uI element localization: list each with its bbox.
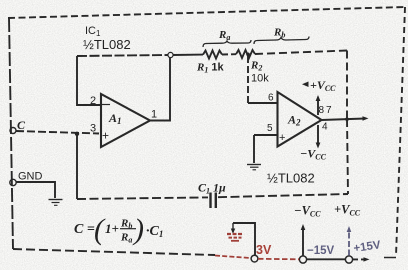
svg-text:R1 1k: R1 1k: [196, 62, 225, 75]
svg-text:5: 5: [267, 123, 273, 134]
svg-text:10k: 10k: [251, 73, 269, 85]
svg-text:1: 1: [151, 109, 157, 121]
svg-text:3: 3: [90, 123, 96, 135]
svg-text:3V: 3V: [256, 243, 272, 257]
svg-text:): ): [132, 213, 144, 246]
svg-text:½TL082: ½TL082: [267, 171, 315, 186]
svg-text:1+: 1+: [105, 221, 119, 236]
svg-text:4: 4: [322, 122, 328, 133]
svg-text:+: +: [102, 129, 109, 143]
svg-text:6: 6: [268, 93, 274, 104]
svg-text:+: +: [279, 132, 285, 144]
svg-text:7: 7: [326, 105, 332, 116]
svg-text:C1 1μ: C1 1μ: [198, 181, 226, 196]
svg-text:C: C: [17, 118, 26, 132]
svg-text:−15V: −15V: [307, 245, 335, 257]
svg-text:½TL082: ½TL082: [83, 37, 131, 52]
svg-text:C =: C =: [74, 222, 95, 237]
svg-text:2: 2: [90, 95, 96, 107]
svg-text:8: 8: [319, 105, 325, 116]
svg-text:GND: GND: [18, 171, 43, 183]
